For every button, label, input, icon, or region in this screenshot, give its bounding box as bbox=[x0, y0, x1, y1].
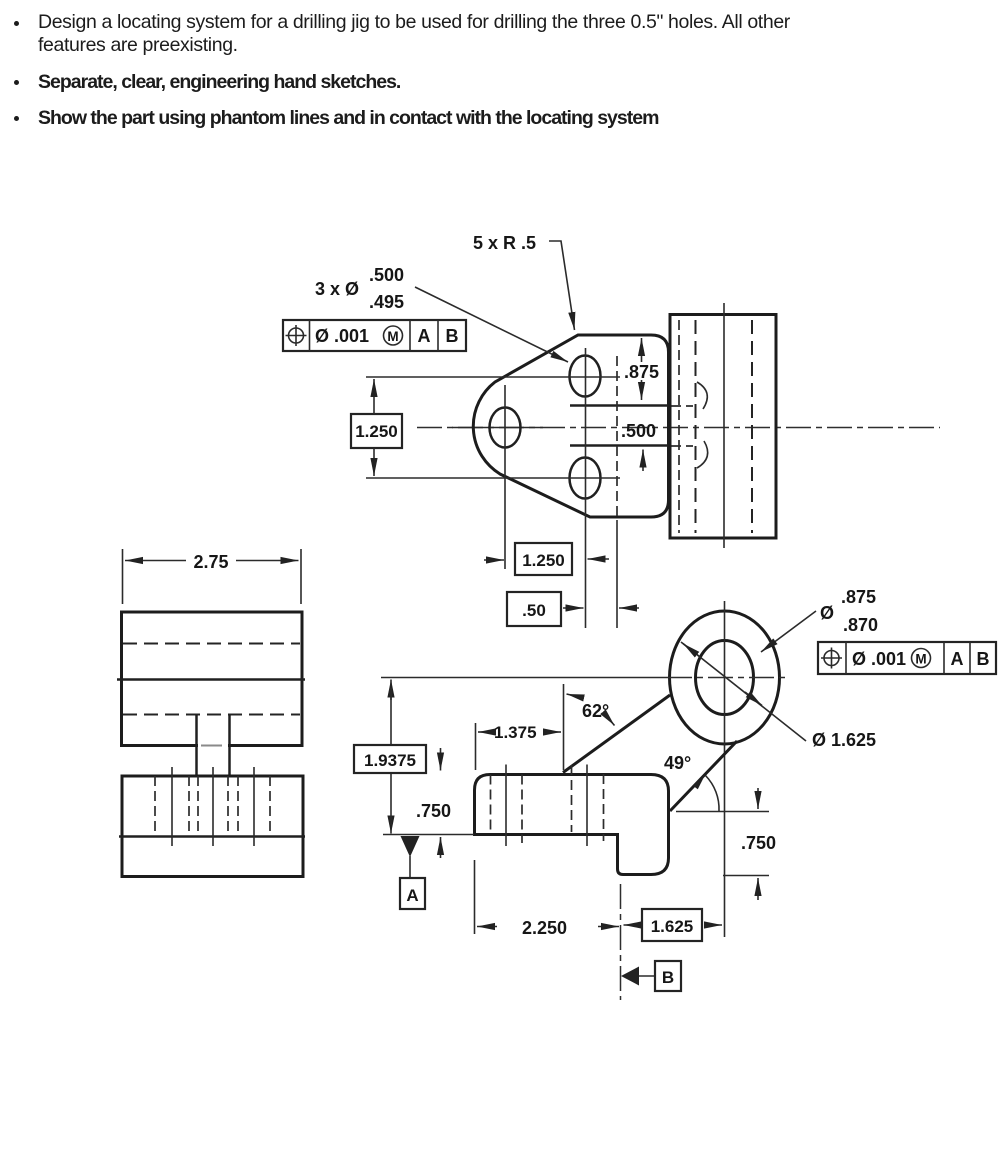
horizontal line y677 solid bbox=[381, 677, 667, 679]
svg-text:B: B bbox=[662, 968, 674, 987]
svg-text:1.250: 1.250 bbox=[355, 422, 398, 441]
svg-text:49°: 49° bbox=[664, 753, 691, 773]
49deg angle arc bbox=[706, 776, 720, 812]
bar hidden hole edge 2b bbox=[603, 774, 605, 841]
gap in upper block bottom edge bbox=[198, 742, 228, 748]
dim 2.75 ext line right bbox=[300, 549, 302, 604]
cylinder arc upper bbox=[697, 382, 707, 409]
dim 1.250 arrow down bbox=[373, 448, 375, 476]
dim 2.75 line right arrow bbox=[236, 560, 299, 562]
dim 1.9375 vertical line segments bbox=[390, 688, 392, 745]
part outline top view bbox=[473, 335, 668, 517]
svg-text:Ø .001: Ø .001 bbox=[852, 649, 906, 669]
dim 1.9375 box bbox=[354, 745, 426, 773]
vertical centerline of boss bbox=[724, 601, 726, 937]
lower block bbox=[122, 776, 303, 877]
feature control frame top bbox=[283, 320, 466, 351]
ext line x563 vertical bbox=[563, 684, 565, 770]
ext line bar left down bbox=[474, 860, 476, 934]
ext line upper hole bbox=[366, 376, 620, 378]
cylinder hidden line x679 bbox=[678, 320, 680, 533]
dim 1.9375 vertical arrow up bbox=[390, 680, 392, 701]
svg-text:5 x R .5: 5 x R .5 bbox=[473, 233, 536, 253]
svg-text:.500: .500 bbox=[369, 265, 404, 285]
dia 1.625 upper arrowhead bbox=[683, 644, 700, 658]
dim 1.375 ext line left bbox=[475, 723, 477, 770]
svg-text:62°: 62° bbox=[582, 701, 609, 721]
datum A triangle bbox=[401, 836, 420, 857]
dim 1.625 left arrow bbox=[624, 924, 641, 926]
upper block mid solid line bbox=[117, 678, 305, 681]
datum A stem bbox=[409, 856, 411, 878]
vertical centerline right holes bbox=[585, 348, 587, 628]
hidden hole edge 1a bbox=[154, 776, 156, 833]
hidden hole edge 2a bbox=[197, 776, 199, 833]
dim 1.625 right arrow bbox=[704, 924, 722, 926]
62deg arrow onto vertical line bbox=[567, 694, 585, 698]
slot top line bbox=[570, 404, 668, 407]
leader 3xO bbox=[415, 287, 568, 362]
bushing centerline 3 bbox=[253, 767, 255, 846]
hole lower right bbox=[570, 458, 601, 499]
hidden hole edge 1b bbox=[188, 776, 190, 833]
horizontal centerline through boss bbox=[667, 677, 789, 679]
centerline x620 vertical bbox=[620, 884, 622, 1000]
dim 1.9375 vertical arrow down bbox=[390, 816, 392, 834]
extension line x617 below part bbox=[616, 520, 618, 628]
svg-text:1.250: 1.250 bbox=[522, 551, 565, 570]
bushing centerline 1 bbox=[171, 767, 173, 846]
boss inner circle bbox=[696, 641, 754, 715]
svg-text:.495: .495 bbox=[369, 292, 404, 312]
pin left bbox=[195, 715, 198, 776]
dim .50 right arrow bbox=[619, 607, 639, 609]
svg-text:.870: .870 bbox=[843, 615, 878, 635]
dim 1.250 left box bbox=[351, 414, 402, 448]
dim .750 right arrow down bbox=[757, 788, 759, 809]
hidden hole edge 2b bbox=[227, 776, 229, 833]
dim 1.250 arrow up bbox=[373, 379, 375, 414]
svg-text:2.75: 2.75 bbox=[193, 552, 228, 572]
arm left edge 62deg bbox=[563, 695, 670, 773]
svg-text:.500: .500 bbox=[621, 421, 656, 441]
dim .50 left arrow bbox=[563, 607, 584, 609]
svg-text:Ø .001: Ø .001 bbox=[315, 326, 369, 346]
dim 1.625 box bbox=[642, 909, 702, 941]
hole upper right bbox=[570, 356, 601, 397]
dim 2.75 line left arrow bbox=[125, 560, 186, 562]
svg-text:.875: .875 bbox=[624, 362, 659, 382]
bar outline bbox=[475, 775, 669, 875]
vertical centerline left hole bbox=[504, 385, 506, 569]
bar hidden hole edge 1b bbox=[521, 775, 523, 844]
bullet 2 text bbox=[38, 71, 400, 94]
svg-text:M: M bbox=[915, 652, 926, 667]
upper block bbox=[122, 612, 303, 746]
62deg arrow onto slant line bbox=[604, 713, 615, 726]
svg-text:Ø 1.625: Ø 1.625 bbox=[812, 730, 876, 750]
bar hole centerline 1 bbox=[505, 765, 507, 847]
pin right bbox=[228, 715, 231, 776]
cylinder arc lower bbox=[697, 441, 708, 468]
hidden vertical line x617 bbox=[616, 356, 618, 520]
cylinder centerline vertical bbox=[723, 303, 725, 548]
right lower extension line bbox=[723, 875, 769, 877]
arm right edge 49deg bbox=[670, 741, 737, 811]
dim .500 arrow up from below bbox=[642, 450, 644, 472]
lower block mid line bbox=[119, 835, 305, 838]
boss outer circle bbox=[670, 611, 780, 744]
dim .750 left arrow up bbox=[440, 837, 442, 858]
datum B box bbox=[655, 961, 681, 991]
main horizontal centerline bbox=[417, 427, 940, 429]
svg-text:1.625: 1.625 bbox=[651, 917, 694, 936]
svg-text:1.9375: 1.9375 bbox=[364, 751, 416, 770]
dia .875 leader bbox=[761, 611, 816, 652]
datum A box bbox=[400, 878, 425, 909]
dim .50 box bbox=[507, 592, 561, 626]
svg-text:A: A bbox=[418, 326, 431, 346]
cylinder rectangle bbox=[670, 315, 776, 539]
49deg arc arrowhead bbox=[693, 773, 706, 789]
datum B triangle bbox=[621, 967, 639, 986]
leader 5xR.5 bbox=[549, 241, 575, 330]
ext line lower hole bbox=[366, 477, 620, 479]
dim .875 arrow down bbox=[641, 380, 643, 400]
hidden hole edge 3b bbox=[269, 776, 271, 833]
svg-text:1.375: 1.375 bbox=[494, 723, 537, 742]
dim .875 arrow up bbox=[641, 338, 643, 362]
svg-text:B: B bbox=[446, 326, 459, 346]
svg-text:.750: .750 bbox=[741, 833, 776, 853]
datum A extension line bbox=[383, 834, 474, 836]
centerline solid through left hole bbox=[452, 427, 543, 429]
dim 1.250 bottom left arrow bbox=[484, 559, 504, 561]
hidden hole edge 3a bbox=[237, 776, 239, 833]
bullet 3 marker bbox=[14, 116, 19, 121]
dim 2.250 left arrow bbox=[477, 926, 497, 928]
feature control frame front bbox=[818, 642, 996, 674]
svg-text:.750: .750 bbox=[416, 801, 451, 821]
dim 1.250 bottom right arrow bbox=[588, 558, 610, 560]
dim 2.250 right arrow bbox=[598, 926, 619, 928]
svg-text:M: M bbox=[387, 329, 398, 344]
dim 1.250 bottom box bbox=[515, 543, 572, 575]
bullet 1 text bbox=[38, 11, 803, 57]
faint line between pins bbox=[201, 745, 222, 747]
slot bottom line bbox=[570, 444, 668, 447]
dim .750 right arrow up bbox=[757, 878, 759, 900]
dia 1.625 lower arrowhead bbox=[745, 692, 762, 706]
dim 1.375 right arrow bbox=[546, 731, 561, 733]
dia 1.625 diagonal line bbox=[681, 642, 806, 741]
svg-text:.875: .875 bbox=[841, 587, 876, 607]
svg-text:A: A bbox=[951, 649, 964, 669]
upper block hidden line 1 bbox=[123, 643, 300, 645]
slot hidden continuation bottom bbox=[671, 445, 693, 447]
svg-text:Ø: Ø bbox=[820, 603, 834, 623]
bar hidden hole edge 2a bbox=[571, 765, 573, 832]
cylinder hidden line x695 bbox=[695, 320, 697, 533]
dim 2.75 ext line left bbox=[122, 549, 124, 604]
svg-text:.50: .50 bbox=[522, 601, 546, 620]
bar hole centerline 2 bbox=[586, 765, 588, 847]
cylinder hidden line x752 bbox=[751, 320, 753, 533]
svg-text:A: A bbox=[406, 886, 418, 905]
upper block hidden line 2 bbox=[123, 714, 300, 716]
bullet 1 marker bbox=[14, 21, 19, 26]
svg-text:3 x Ø: 3 x Ø bbox=[315, 279, 359, 299]
datum B stem bbox=[639, 975, 656, 977]
bullet 2 marker bbox=[14, 80, 19, 85]
svg-text:2.250: 2.250 bbox=[522, 918, 567, 938]
49deg horizontal reference line bbox=[676, 811, 769, 813]
hole left bbox=[490, 408, 521, 448]
dim .750 left arrow down bbox=[440, 748, 442, 771]
dim 1.375 left arrow bbox=[478, 731, 494, 733]
bar hidden hole edge 1a bbox=[490, 775, 492, 835]
bushing centerline 2 bbox=[212, 767, 214, 846]
svg-text:B: B bbox=[977, 649, 990, 669]
slot hidden continuation top bbox=[671, 405, 693, 407]
bullet 3 text bbox=[38, 107, 658, 130]
